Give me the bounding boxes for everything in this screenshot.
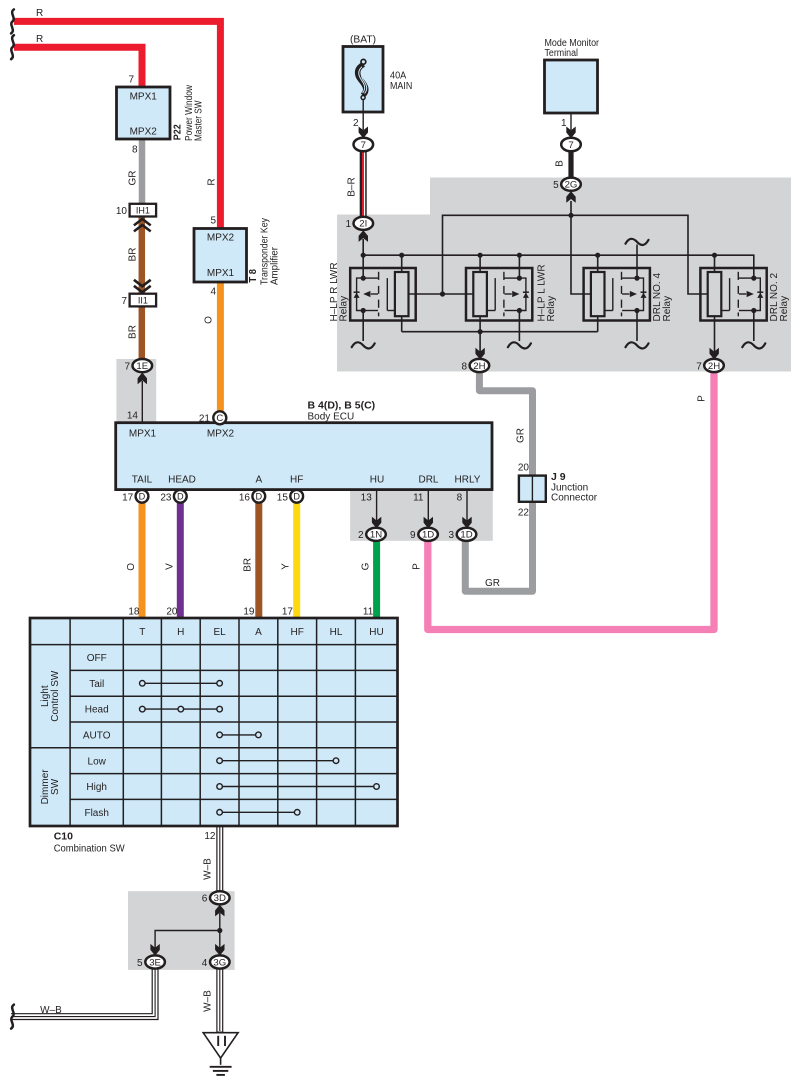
arrow into 1D (pin 9) — [424, 517, 433, 529]
svg-text:1: 1 — [561, 118, 567, 129]
svg-text:7: 7 — [124, 361, 130, 372]
wire (ECU DRL to 1D) — [427, 490, 429, 521]
svg-text:B 4(D), B 5(C): B 4(D), B 5(C) — [308, 400, 376, 412]
wire G (1N pin 2 to C10 pin 11) — [373, 539, 380, 619]
wire O (ECU TAIL 17 to C10 pin 18) — [139, 502, 146, 619]
arrow into 1N — [372, 517, 381, 529]
svg-text:7: 7 — [361, 140, 366, 151]
arrow into 2H pin 8 — [475, 348, 484, 360]
svg-text:1: 1 — [345, 219, 351, 230]
svg-text:D: D — [139, 492, 146, 502]
svg-text:D: D — [177, 492, 184, 502]
connector oval 2H (pin 7) — [704, 359, 724, 372]
wire GR (2H pin 8 to J9 pin 20) — [479, 370, 532, 476]
svg-text:3G: 3G — [213, 957, 226, 968]
svg-text:Relay: Relay — [779, 296, 790, 322]
connector oval 2G — [561, 178, 581, 191]
connector circle D (A pin 16) — [252, 490, 265, 503]
svg-text:W–B: W–B — [202, 858, 213, 880]
arrow below 2G — [566, 191, 575, 203]
break symbol (relay K3 mosfet feed from other circuit) — [626, 239, 649, 245]
connector chevrons (below IH1) — [134, 219, 151, 231]
svg-text:Relay: Relay — [339, 296, 350, 322]
switch contact Tail (T-EL) — [140, 681, 223, 687]
relay K3 DRL NO.4 — [584, 245, 650, 342]
svg-text:T 8: T 8 — [247, 269, 259, 283]
svg-text:40A: 40A — [390, 71, 406, 82]
svg-text:19: 19 — [243, 606, 255, 617]
svg-text:Tail: Tail — [89, 679, 104, 690]
svg-text:3: 3 — [448, 530, 454, 541]
wire B (mode monitor oval 7 to 2G) — [568, 150, 573, 179]
svg-text:B–R: B–R — [346, 177, 357, 196]
svg-text:R: R — [36, 8, 43, 19]
svg-text:16: 16 — [239, 492, 251, 503]
component C10 combination switch table — [30, 618, 398, 826]
svg-text:Control SW: Control SW — [50, 670, 61, 722]
svg-text:DRL: DRL — [418, 475, 438, 486]
relay block shaded area — [337, 178, 791, 372]
wire O (T8 pin 4 to ECU pin 21) — [217, 282, 224, 412]
switch contact AUTO (EL-A) — [217, 732, 261, 738]
connector oval 1N (pin 2) — [366, 528, 386, 541]
svg-text:17: 17 — [122, 492, 134, 503]
wire R (feed 2, off-page to P22 pin 7) — [14, 47, 142, 87]
component Body ECU — [116, 423, 492, 490]
svg-text:11: 11 — [363, 606, 374, 617]
svg-text:14: 14 — [127, 411, 139, 422]
svg-text:HL: HL — [330, 627, 343, 638]
wire Y (ECU HF 15 to C10 pin 17) — [293, 502, 300, 619]
node (relay4 coil on feed bus) — [712, 253, 717, 258]
svg-text:O: O — [126, 563, 137, 571]
wire B-R (fuse oval 7 to 2I) : black base — [360, 150, 367, 218]
svg-text:Relay: Relay — [662, 296, 673, 322]
svg-text:Head: Head — [85, 705, 109, 716]
svg-text:C: C — [216, 413, 223, 424]
svg-text:R: R — [207, 178, 218, 185]
fuse 40A MAIN — [343, 47, 383, 113]
wire R (feed 1, off-page to T8 pin 5) — [14, 21, 220, 229]
svg-text:Y: Y — [281, 563, 292, 570]
svg-text:O: O — [204, 316, 215, 324]
svg-text:MPX2: MPX2 — [207, 233, 235, 244]
svg-text:High: High — [86, 782, 107, 793]
svg-text:II1: II1 — [138, 296, 148, 306]
svg-text:B: B — [555, 160, 566, 167]
svg-text:Master SW: Master SW — [194, 100, 205, 141]
svg-text:3E: 3E — [149, 957, 161, 968]
svg-text:4: 4 — [210, 287, 216, 298]
svg-text:13: 13 — [361, 492, 373, 503]
svg-text:3D: 3D — [214, 893, 226, 904]
connector circle D (HF pin 15) — [290, 490, 303, 503]
wire BR (II1 to 1E) — [139, 306, 146, 361]
relay K2 H-LP L LWR — [443, 255, 533, 352]
svg-text:11: 11 — [413, 492, 424, 503]
svg-text:MAIN: MAIN — [390, 81, 412, 92]
connector oval 2H (pin 8) — [470, 359, 490, 372]
svg-text:R: R — [36, 34, 43, 45]
switch contact High (EL-HU) — [217, 784, 380, 790]
svg-text:8: 8 — [457, 492, 463, 503]
svg-text:GR: GR — [516, 428, 527, 443]
svg-text:10: 10 — [116, 206, 128, 217]
wire (fuse to oval 7) — [362, 99, 364, 130]
connector IH1 — [130, 204, 157, 217]
shaded strip at connector 1E — [116, 359, 156, 423]
node (gate bus left drop) — [440, 291, 445, 296]
svg-text:HU: HU — [370, 475, 384, 486]
relay K1 H-LP R LWR (mirrored) — [350, 256, 442, 341]
svg-text:2G: 2G — [565, 180, 578, 191]
svg-text:2I: 2I — [359, 219, 367, 230]
component J9 junction connector — [519, 476, 546, 502]
node (relay2 coil on feed bus) — [478, 253, 483, 258]
component T8 Transponder Key Amplifier — [194, 229, 247, 283]
svg-text:1N: 1N — [370, 530, 382, 541]
svg-text:H: H — [177, 627, 184, 638]
svg-text:G: G — [361, 562, 372, 570]
wire (2G to gate bus and DRL NO.4 relay) — [571, 201, 591, 294]
svg-text:HEAD: HEAD — [168, 475, 196, 486]
svg-text:Body ECU: Body ECU — [308, 412, 355, 423]
connector oval 1E — [133, 359, 153, 372]
svg-text:7: 7 — [568, 140, 573, 151]
break symbol (relay K1 mosfet output) — [352, 342, 375, 348]
node (2G line on gate bus) — [568, 213, 573, 218]
wire (1E to ECU pin 14) — [141, 381, 143, 423]
connector oval 3E (pin 5) — [145, 955, 165, 968]
svg-text:Low: Low — [88, 756, 107, 767]
svg-text:2: 2 — [358, 530, 364, 541]
wire GR (J9 pin 22 to 1D pin 3) — [465, 502, 532, 592]
svg-text:GR: GR — [128, 171, 139, 186]
shaded square at connectors 3D/3E/3G — [128, 891, 235, 970]
svg-text:OFF: OFF — [87, 653, 107, 664]
svg-text:J 9: J 9 — [551, 471, 566, 483]
break symbol (wire R feed 1) — [11, 9, 14, 33]
switch contact Head (T-H-EL) — [140, 706, 223, 712]
wire W-B (3G to ground) — [216, 967, 223, 1033]
svg-text:V: V — [164, 563, 175, 570]
svg-text:P: P — [697, 395, 708, 402]
svg-text:MPX2: MPX2 — [207, 429, 235, 440]
svg-text:MPX2: MPX2 — [130, 127, 158, 138]
svg-text:8: 8 — [132, 145, 138, 156]
arrow into 3E — [150, 944, 159, 956]
svg-text:MPX1: MPX1 — [129, 429, 157, 440]
arrow into oval 7 (battery) — [359, 127, 368, 139]
break symbol (relay K2 mosfet output) — [508, 342, 531, 348]
connector oval 1D (pin 3) — [457, 528, 477, 541]
connector chevrons (above II1) — [134, 280, 151, 292]
switch contact Flash (EL-HF) — [217, 810, 300, 816]
svg-text:A: A — [255, 475, 262, 486]
svg-text:1D: 1D — [422, 530, 434, 541]
svg-text:7: 7 — [696, 361, 702, 372]
svg-text:A: A — [255, 627, 262, 638]
svg-text:1E: 1E — [136, 361, 148, 372]
break symbol (relay K4 mosfet output) — [742, 342, 765, 348]
svg-text:GR: GR — [485, 578, 500, 589]
svg-text:23: 23 — [160, 492, 172, 503]
svg-text:MPX1: MPX1 — [207, 268, 235, 279]
wire (3D to junction node) — [219, 913, 221, 931]
node (3D/3E/3G junction) — [217, 928, 222, 933]
arrow into 1E — [138, 373, 147, 385]
svg-text:22: 22 — [518, 508, 530, 519]
connector oval 2I — [354, 217, 374, 230]
svg-text:20: 20 — [166, 606, 178, 617]
svg-text:4: 4 — [202, 958, 208, 969]
svg-text:BR: BR — [243, 558, 254, 572]
wire P (2H pin 7 to 1D pin 9) — [428, 370, 714, 630]
svg-text:D: D — [293, 492, 300, 502]
arrow below 3D — [215, 905, 224, 917]
svg-text:9: 9 — [410, 530, 416, 541]
svg-text:17: 17 — [282, 606, 294, 617]
node (relay1 coil on feed bus) — [399, 253, 404, 258]
wire BR (IH1 to II1) — [139, 217, 146, 294]
svg-text:BR: BR — [128, 248, 139, 262]
svg-text:(BAT): (BAT) — [350, 35, 376, 46]
svg-text:HF: HF — [290, 475, 303, 486]
arrow into 3G — [215, 944, 224, 956]
connector oval 3G (pin 4) — [210, 955, 230, 968]
connector oval 1D (pin 9) — [418, 528, 438, 541]
svg-text:SW: SW — [50, 778, 61, 795]
svg-text:TAIL: TAIL — [132, 475, 153, 486]
svg-text:MPX1: MPX1 — [130, 92, 158, 103]
svg-text:5: 5 — [210, 216, 216, 227]
svg-text:IH1: IH1 — [136, 206, 150, 216]
arrow into oval 7 (mode monitor) — [566, 127, 575, 139]
svg-text:2: 2 — [353, 118, 359, 129]
break symbol (wire R feed 2) — [11, 35, 14, 59]
wire BR (ECU A 16 to C10 pin 19) — [255, 502, 262, 619]
wire (junction to 3E) — [155, 931, 220, 949]
wire (mode monitor to oval 7) — [570, 113, 572, 130]
svg-text:W–B: W–B — [202, 990, 213, 1012]
svg-text:AUTO: AUTO — [83, 731, 111, 742]
arrow into 2H pin 7 — [710, 348, 719, 360]
switch contact Low (EL-HL) — [217, 758, 339, 764]
svg-text:7: 7 — [121, 296, 127, 307]
ground symbol — [203, 1033, 238, 1075]
svg-text:HRLY: HRLY — [455, 475, 481, 486]
svg-text:12: 12 — [204, 831, 216, 842]
connector oval 7 (battery) — [354, 138, 374, 152]
connector II1 — [130, 294, 157, 307]
svg-text:T: T — [139, 627, 145, 638]
relay K4 DRL NO.2 — [700, 256, 766, 353]
svg-text:W–B: W–B — [40, 1005, 62, 1016]
svg-text:Flash: Flash — [84, 808, 108, 819]
connector oval 7 (mode monitor) — [561, 138, 581, 152]
wire (ECU HRLY to 1D) — [466, 490, 468, 521]
wire GR (P22 pin 8 to IH1) — [139, 139, 146, 204]
svg-text:EL: EL — [213, 627, 226, 638]
wire (relay coil commons to 2H pin 8) — [402, 331, 598, 333]
svg-text:6: 6 — [202, 894, 208, 905]
component Mode Monitor Terminal — [545, 60, 598, 113]
node (2I line on feed bus) — [361, 253, 366, 258]
svg-text:D: D — [255, 492, 262, 502]
svg-text:Relay: Relay — [546, 296, 557, 322]
svg-text:15: 15 — [277, 492, 289, 503]
arrow below 2I — [359, 230, 368, 242]
component P22 Power Window Master SW — [117, 87, 171, 139]
svg-text:20: 20 — [518, 463, 530, 474]
connector oval 3D (pin 6) — [210, 891, 230, 904]
svg-text:2H: 2H — [473, 361, 485, 372]
wire gate bus (upper horizontal) — [443, 215, 708, 294]
svg-text:Amplifier: Amplifier — [269, 246, 280, 285]
wire (ECU HU to 1N) — [376, 490, 378, 521]
svg-text:Connector: Connector — [551, 493, 598, 504]
connector circle C (ECU pin 21) — [213, 411, 226, 424]
wire B-R red stripe — [362, 150, 364, 218]
svg-text:Combination SW: Combination SW — [54, 844, 126, 855]
wire feed bus (lower horizontal) — [363, 255, 754, 278]
svg-text:8: 8 — [461, 361, 467, 372]
svg-text:Terminal: Terminal — [545, 48, 579, 59]
break symbol (relay K3 mosfet output) — [626, 342, 649, 348]
wire (2I to relay block feed bus and H-LP R LWR relay) — [362, 239, 364, 278]
svg-text:P22: P22 — [172, 124, 184, 140]
svg-text:HF: HF — [291, 627, 304, 638]
wire V (ECU HEAD 23 to C10 pin 20) — [177, 502, 184, 619]
svg-text:P: P — [411, 563, 422, 570]
wire W-B (C10 pin 12 to 3D) — [216, 826, 223, 892]
wire B-R white separator — [364, 150, 366, 218]
svg-text:HU: HU — [369, 627, 383, 638]
svg-text:21: 21 — [199, 414, 211, 425]
wire (junction to 3G) — [219, 931, 221, 949]
svg-text:1D: 1D — [460, 530, 472, 541]
node (relay2 mosfet on feed bus) — [517, 253, 522, 258]
svg-text:18: 18 — [128, 606, 140, 617]
arrow into 1D (pin 3) — [462, 517, 471, 529]
wire W-B (3E to off-page left) — [11, 967, 155, 1017]
node (relay2 coil to coil common) — [478, 329, 483, 334]
node (relay3 coil on feed bus) — [595, 253, 600, 258]
svg-text:C10: C10 — [54, 831, 73, 843]
connector circle D (HEAD pin 23) — [174, 490, 187, 503]
svg-text:5: 5 — [137, 958, 143, 969]
break symbol (W-B off-page) — [11, 1005, 14, 1029]
connector circle D (TAIL pin 17) — [136, 490, 149, 503]
svg-text:7: 7 — [128, 75, 134, 86]
svg-text:2H: 2H — [708, 361, 720, 372]
shaded strip at connectors 1N/1D — [350, 490, 493, 541]
svg-text:5: 5 — [553, 180, 559, 191]
svg-text:BR: BR — [128, 325, 139, 339]
